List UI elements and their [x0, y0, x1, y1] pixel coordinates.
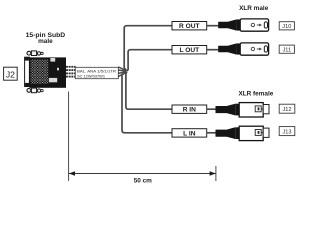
connector reference box J11: [279, 45, 294, 53]
dimension extension line (right): [215, 166, 217, 181]
dimension line: [69, 173, 216, 175]
net label box L IN: [172, 129, 207, 138]
XLR male connector (L OUT): [218, 43, 268, 55]
dimension extension line (left): [68, 92, 70, 182]
svg-text:XLR male: XLR male: [239, 5, 269, 12]
svg-text:L OUT: L OUT: [179, 47, 199, 54]
dimension arrow left: [69, 171, 75, 176]
XLR male connector (R OUT): [218, 19, 268, 31]
wire branch to R IN: [126, 72, 172, 109]
dimension arrow right: [210, 171, 216, 176]
wire R OUT box to XLR: [207, 25, 219, 27]
wire fan into junction: [118, 67, 126, 77]
svg-text:R IN: R IN: [183, 107, 196, 114]
wire L OUT box to XLR: [207, 49, 219, 51]
cable bundle leaving connector (4 wires): [66, 67, 76, 77]
svg-text:R OUT: R OUT: [179, 23, 200, 30]
label: 15-pin SubD male: [26, 32, 66, 45]
XLR female connector (R IN): [216, 103, 270, 117]
jack screw hardware (top): [27, 51, 43, 56]
net label box R OUT: [172, 22, 207, 31]
cable label box: [75, 67, 118, 78]
connector reference box J10: [279, 22, 294, 30]
wire branch to L IN: [122, 72, 172, 133]
svg-text:J11: J11: [282, 47, 291, 53]
wire branch to L OUT: [127, 50, 172, 71]
jack screw hardware (bottom): [27, 88, 43, 93]
wire R IN box to XLR: [207, 108, 216, 110]
15-pin SubD connector J2 : mounting flange: [24, 57, 29, 87]
svg-text:male: male: [38, 38, 53, 45]
svg-text:J13: J13: [282, 130, 291, 136]
body highlight bottom right: [49, 78, 57, 82]
15-pin SubD connector J2 : body: [29, 57, 66, 87]
wire L IN box to XLR: [207, 132, 216, 134]
wire branch to R OUT: [124, 26, 172, 71]
body highlight top right: [50, 58, 55, 62]
strain relief texture ticks: [68, 65, 73, 79]
svg-text:50 cm: 50 cm: [134, 177, 152, 184]
XLR female connector (L IN): [216, 126, 270, 140]
pin face hatch: [31, 60, 49, 84]
svg-text:SC 12W/037W1: SC 12W/037W1: [77, 74, 106, 79]
net label box R IN: [172, 105, 207, 114]
svg-text:XLR female: XLR female: [238, 90, 273, 97]
svg-text:L IN: L IN: [183, 130, 196, 137]
connector reference box J2: [4, 67, 18, 80]
connector reference box J12: [279, 104, 295, 113]
svg-text:J10: J10: [282, 24, 291, 30]
svg-text:J12: J12: [282, 107, 291, 113]
svg-text:J2: J2: [6, 69, 15, 79]
connector reference box J13: [279, 127, 295, 136]
net label box L OUT: [172, 46, 207, 55]
